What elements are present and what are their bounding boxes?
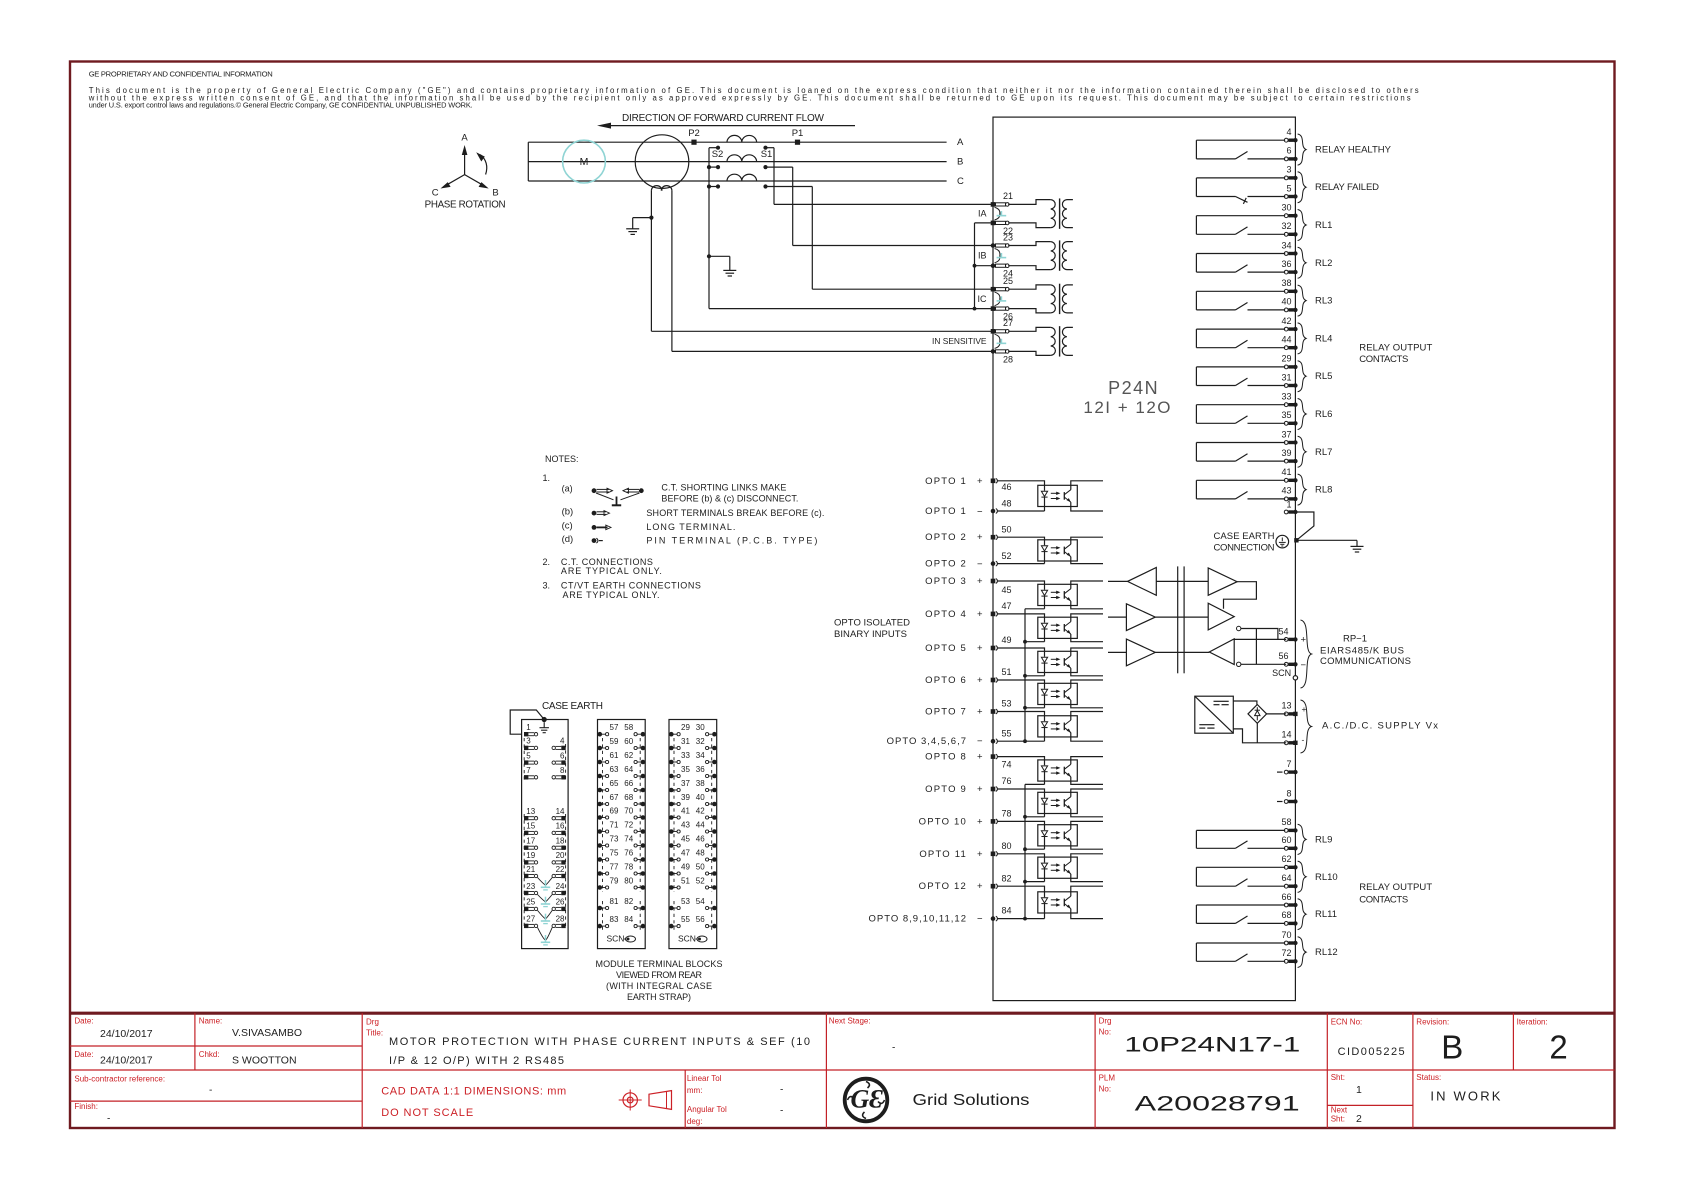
relay contact RL2 xyxy=(1196,254,1285,273)
svg-text:80: 80 xyxy=(1002,841,1012,851)
label S2 xyxy=(712,149,724,160)
terminal P2 xyxy=(688,128,700,145)
svg-text:19: 19 xyxy=(526,851,535,860)
wire cross link xyxy=(1255,629,1257,665)
terminal 41 xyxy=(1281,467,1297,482)
terminal 31 xyxy=(1281,372,1297,387)
svg-text:46: 46 xyxy=(696,834,705,843)
svg-text:25: 25 xyxy=(1003,276,1013,286)
svg-text:49: 49 xyxy=(1002,635,1012,645)
svg-text:RL3: RL3 xyxy=(1315,296,1332,307)
label note 1 xyxy=(543,473,551,483)
svg-text:31: 31 xyxy=(1281,372,1291,382)
label RL2 xyxy=(1315,258,1332,269)
svg-text:OPTO ISOLATED: OPTO ISOLATED xyxy=(834,618,910,629)
svg-text:37: 37 xyxy=(1281,429,1291,439)
block2 terminals 83/84 xyxy=(598,915,646,928)
svg-text:(b): (b) xyxy=(562,507,574,518)
svg-text:54: 54 xyxy=(1278,626,1288,636)
label AC DC supply xyxy=(1322,721,1438,732)
buffer U6 receiver xyxy=(1209,639,1234,665)
svg-text:A: A xyxy=(957,137,964,148)
svg-text:MODULE TERMINAL BLOCKS: MODULE TERMINAL BLOCKS xyxy=(596,959,723,969)
wire CT earth bus xyxy=(709,148,993,309)
svg-text:A.C./D.C. SUPPLY Vx: A.C./D.C. SUPPLY Vx xyxy=(1322,721,1438,732)
svg-text:deg:: deg: xyxy=(687,1117,703,1126)
transformer IB (23/24) xyxy=(1008,240,1073,270)
svg-text:16: 16 xyxy=(556,822,565,831)
titleblock linear tol xyxy=(687,1074,783,1126)
terminal 29 xyxy=(1281,354,1297,369)
block1 terminals 5/6 xyxy=(524,751,566,764)
label OPTO 8,9,10,11,12 minus xyxy=(868,914,983,925)
svg-text:DO NOT SCALE: DO NOT SCALE xyxy=(381,1107,473,1119)
svg-text:Grid Solutions: Grid Solutions xyxy=(913,1092,1030,1109)
svg-text:26: 26 xyxy=(556,898,565,907)
block1 terminals 19/20 xyxy=(524,851,566,864)
svg-text:under U.S. export control laws: under U.S. export control laws and regul… xyxy=(89,101,473,110)
svg-text:Sht:: Sht: xyxy=(1331,1114,1345,1123)
svg-text:RL4: RL4 xyxy=(1315,333,1332,344)
wire OPTO 6 cathode xyxy=(1025,707,1045,709)
relay contact RL4 xyxy=(1196,329,1285,348)
svg-text:C: C xyxy=(957,176,964,187)
terminal 30 xyxy=(1281,202,1297,217)
wire psu to terminal 14 xyxy=(1233,729,1286,743)
wire phase B xyxy=(528,157,963,168)
svg-text:P24N: P24N xyxy=(1108,378,1159,398)
brace RELAY FAILED xyxy=(1298,172,1307,203)
svg-text:1: 1 xyxy=(1286,499,1291,509)
phase bus vertical link xyxy=(527,142,529,181)
svg-text:CAD DATA 1:1 DIMENSIONS: mm: CAD DATA 1:1 DIMENSIONS: mm xyxy=(381,1085,566,1097)
svg-text:24/10/2017: 24/10/2017 xyxy=(100,1028,153,1040)
svg-text:27: 27 xyxy=(1003,318,1013,328)
terminal 66 xyxy=(1281,892,1297,907)
svg-text:5: 5 xyxy=(1286,183,1291,193)
titleblock finish xyxy=(74,1102,110,1125)
svg-text:Date:: Date: xyxy=(74,1050,93,1059)
svg-text:23: 23 xyxy=(526,882,535,891)
GE logo xyxy=(845,1079,888,1122)
label notes heading xyxy=(545,454,579,464)
block3 SCN terminal xyxy=(678,933,707,943)
relay contact RL10 xyxy=(1196,867,1285,886)
terminal 55 xyxy=(991,728,1012,743)
titleblock drg title xyxy=(366,1018,810,1067)
svg-text:57: 57 xyxy=(610,723,619,732)
svg-text:31: 31 xyxy=(681,737,690,746)
block1 terminals 15/16 xyxy=(524,822,566,835)
terminal 60 xyxy=(1281,835,1297,850)
svg-text:71: 71 xyxy=(610,820,619,829)
svg-text:54: 54 xyxy=(696,897,705,906)
CT winding phase A xyxy=(727,135,757,142)
svg-text:5: 5 xyxy=(526,751,531,760)
svg-text:55: 55 xyxy=(1002,728,1012,738)
terminal 49 xyxy=(991,635,1012,650)
terminal 21 xyxy=(991,191,1013,207)
label note 1d xyxy=(562,534,574,545)
svg-text:74: 74 xyxy=(1002,759,1012,769)
block1 terminals 21/22 xyxy=(524,865,566,878)
label relay output contacts upper xyxy=(1359,342,1432,365)
optocoupler OPTO 5 xyxy=(997,648,1103,676)
label P24N xyxy=(1083,378,1172,417)
label RELAY FAILED xyxy=(1315,182,1379,193)
titleblock ecn no xyxy=(1331,1018,1405,1058)
terminal 50 xyxy=(991,525,1012,540)
svg-text:Sht:: Sht: xyxy=(1331,1073,1345,1082)
wire OPTO 5 cathode xyxy=(1025,675,1045,677)
relay case outline P24N xyxy=(993,117,1295,1001)
titleblock sht xyxy=(1331,1073,1362,1125)
svg-text:56: 56 xyxy=(1278,651,1288,661)
CT shorting link 21-22 xyxy=(995,207,1007,220)
svg-text:28: 28 xyxy=(556,915,565,924)
brace RS485 xyxy=(1301,620,1312,688)
optocoupler OPTO 9 xyxy=(997,789,1103,817)
block3 terminals 43/44 xyxy=(669,820,717,833)
svg-text:Drg: Drg xyxy=(1099,1017,1112,1026)
svg-text:NOTES:: NOTES: xyxy=(545,454,579,464)
svg-text:(d): (d) xyxy=(562,534,574,545)
svg-text:RL6: RL6 xyxy=(1315,409,1332,420)
label RELAY HEALTHY xyxy=(1315,145,1392,156)
svg-text:−: − xyxy=(977,507,983,518)
svg-text:SCN: SCN xyxy=(678,933,696,943)
terminal 14 xyxy=(1281,730,1304,745)
bridge rectifier xyxy=(1248,705,1267,724)
svg-text:1: 1 xyxy=(526,723,531,732)
wire opto group A common bus xyxy=(997,609,1027,743)
power supply unit xyxy=(1195,696,1234,733)
svg-text:38: 38 xyxy=(696,779,705,788)
titleblock next stage xyxy=(829,1017,896,1054)
svg-text:OPTO 3,4,5,6,7: OPTO 3,4,5,6,7 xyxy=(887,736,967,747)
svg-text:CONTACTS: CONTACTS xyxy=(1359,895,1408,906)
svg-text:21: 21 xyxy=(526,865,535,874)
svg-text:Next Stage:: Next Stage: xyxy=(829,1017,871,1026)
label OPTO 2 plus xyxy=(925,532,983,543)
terminal 3 xyxy=(1284,165,1297,180)
svg-text:4: 4 xyxy=(560,737,565,746)
wire OPTO 10 cathode xyxy=(1025,848,1045,850)
bubble U5 xyxy=(1237,626,1241,630)
svg-text:Drg: Drg xyxy=(366,1018,379,1027)
label OPTO 8 xyxy=(925,752,983,763)
terminal 52 xyxy=(991,551,1012,566)
terminal 46 xyxy=(991,478,1012,492)
label IC xyxy=(978,294,988,304)
label RP-1 communications xyxy=(1320,634,1411,668)
svg-text:76: 76 xyxy=(624,848,633,857)
relay contact RL9 xyxy=(1196,830,1285,848)
relay contact RL11 xyxy=(1196,905,1285,923)
svg-text:73: 73 xyxy=(610,834,619,843)
svg-text:ECN No:: ECN No: xyxy=(1331,1018,1363,1027)
core balance CT xyxy=(635,135,689,191)
label module terminal blocks xyxy=(596,959,723,1002)
label grid solutions xyxy=(913,1092,1030,1109)
svg-text:SHORT TERMINALS BREAK BEFORE (: SHORT TERMINALS BREAK BEFORE (c). xyxy=(646,508,824,518)
optocoupler OPTO 7 xyxy=(997,712,1103,742)
symbol short terminal b xyxy=(592,511,610,516)
svg-text:+: + xyxy=(977,576,983,587)
svg-text:V.SIVASAMBO: V.SIVASAMBO xyxy=(232,1027,302,1039)
label OPTO 6 xyxy=(925,675,983,686)
terminal 35 xyxy=(1281,410,1297,425)
svg-text:30: 30 xyxy=(696,723,705,732)
svg-text:32: 32 xyxy=(696,737,705,746)
terminal 33 xyxy=(1281,391,1297,406)
wire psu to bridge top xyxy=(1233,701,1257,705)
svg-text:15: 15 xyxy=(526,822,535,831)
svg-text:58: 58 xyxy=(624,723,633,732)
svg-text:Title:: Title: xyxy=(366,1029,383,1038)
label RL3 xyxy=(1315,296,1332,307)
direction arrow xyxy=(597,123,855,129)
wire rx output stub xyxy=(1108,580,1128,582)
motor M xyxy=(563,140,606,183)
label opto isolated binary inputs xyxy=(834,618,910,641)
titleblock name xyxy=(199,1017,302,1039)
block2 terminals 71/72 xyxy=(598,820,646,833)
terminal 23 xyxy=(991,232,1013,248)
svg-text:RL5: RL5 xyxy=(1315,371,1332,382)
svg-text:23: 23 xyxy=(1003,232,1013,242)
proprietary note paragraph xyxy=(88,86,1419,110)
projection symbol xyxy=(619,1090,672,1111)
buffer U2 tx xyxy=(1126,604,1155,631)
svg-text:+: + xyxy=(977,643,983,654)
terminal 4 xyxy=(1284,127,1297,142)
optocoupler OPTO 12 xyxy=(997,886,1103,918)
svg-text:OPTO 8: OPTO 8 xyxy=(925,752,967,763)
svg-text:+: + xyxy=(977,675,983,686)
block3 terminals 37/38 xyxy=(669,779,717,792)
svg-text:18: 18 xyxy=(556,837,565,846)
svg-text:74: 74 xyxy=(624,834,633,843)
wire OPTO 8 cathode xyxy=(1025,783,1045,785)
terminal 5 xyxy=(1284,183,1297,198)
symbol long terminal c xyxy=(592,525,611,530)
buffer U4 driver xyxy=(1208,568,1237,595)
svg-text:RP−1: RP−1 xyxy=(1343,634,1367,645)
svg-text:−: − xyxy=(977,914,983,925)
svg-text:OPTO 8,9,10,11,12: OPTO 8,9,10,11,12 xyxy=(868,914,967,925)
label note 1b text xyxy=(646,508,824,518)
svg-text:PHASE ROTATION: PHASE ROTATION xyxy=(425,199,506,210)
terminal 56 xyxy=(1278,651,1306,671)
terminal 6 xyxy=(1284,146,1297,161)
svg-text:37: 37 xyxy=(681,779,690,788)
svg-text:7: 7 xyxy=(1286,759,1291,769)
terminal 45 xyxy=(991,579,1012,595)
label IA xyxy=(978,209,987,219)
svg-text:38: 38 xyxy=(1281,278,1291,288)
optocoupler OPTO 1 xyxy=(997,481,1103,511)
svg-text:S WOOTTON: S WOOTTON xyxy=(232,1054,297,1066)
ground CT secondary earth xyxy=(707,254,736,276)
block3 terminals 29/30 xyxy=(669,723,717,736)
svg-text:34: 34 xyxy=(696,751,705,760)
svg-text:75: 75 xyxy=(610,848,619,857)
title block grid xyxy=(70,1013,1615,1128)
CT A secondary S1 stub xyxy=(763,146,774,150)
svg-text:A20028791: A20028791 xyxy=(1135,1092,1300,1116)
CT shorting link 23-24 xyxy=(995,249,1007,263)
label RL9 xyxy=(1315,834,1332,845)
label OPTO 9 xyxy=(925,784,983,795)
svg-text:53: 53 xyxy=(1002,699,1012,709)
svg-text:17: 17 xyxy=(526,837,535,846)
svg-text:78: 78 xyxy=(1002,808,1012,818)
svg-text:OPTO 5: OPTO 5 xyxy=(925,643,967,654)
svg-text:58: 58 xyxy=(1281,817,1291,827)
svg-text:S2: S2 xyxy=(712,149,724,160)
svg-text:84: 84 xyxy=(624,915,633,924)
svg-text:82: 82 xyxy=(624,897,633,906)
svg-text:53: 53 xyxy=(681,897,690,906)
terminal 64 xyxy=(1281,873,1297,888)
block1 dashed edges xyxy=(524,738,565,929)
svg-text:24: 24 xyxy=(556,882,565,891)
svg-text:49: 49 xyxy=(681,862,690,871)
label RL5 xyxy=(1315,371,1332,382)
terminal 47 xyxy=(991,601,1012,616)
block2 terminals 61/62 xyxy=(598,751,646,764)
label S1 xyxy=(761,149,773,160)
svg-text:IB: IB xyxy=(978,250,987,260)
svg-text:2: 2 xyxy=(1549,1029,1567,1066)
terminal 40 xyxy=(1281,297,1297,312)
svg-text:EARTH STRAP): EARTH STRAP) xyxy=(627,992,691,1002)
wire core CT lead 1 xyxy=(650,191,652,332)
label RL4 xyxy=(1315,333,1332,344)
wire OPTO 12 cathode xyxy=(1025,918,1045,920)
terminal 34 xyxy=(1281,240,1297,255)
svg-text:SCN: SCN xyxy=(1272,668,1291,678)
svg-text:RL7: RL7 xyxy=(1315,447,1332,458)
svg-text:S1: S1 xyxy=(761,149,773,160)
svg-text:P2: P2 xyxy=(688,128,700,139)
terminal SCN xyxy=(1272,668,1297,680)
ground core CT earth xyxy=(626,216,653,235)
svg-text:+: + xyxy=(977,476,983,487)
svg-text:47: 47 xyxy=(1002,601,1012,611)
terminal 62 xyxy=(1281,854,1297,869)
terminal 8 xyxy=(1277,788,1298,803)
label OPTO 12 xyxy=(919,881,983,892)
svg-text:+: + xyxy=(977,881,983,892)
svg-text:CASE EARTH: CASE EARTH xyxy=(542,701,603,712)
svg-text:CONNECTION: CONNECTION xyxy=(1214,542,1275,553)
svg-text:42: 42 xyxy=(696,806,705,815)
svg-text:60: 60 xyxy=(1281,835,1291,845)
svg-text:VIEWED FROM REAR: VIEWED FROM REAR xyxy=(616,970,703,980)
label direction of forward current flow xyxy=(622,113,825,124)
svg-text:64: 64 xyxy=(624,765,633,774)
block3 terminals 33/34 xyxy=(669,751,717,764)
label RL8 xyxy=(1315,485,1332,496)
svg-text:BINARY INPUTS: BINARY INPUTS xyxy=(834,629,907,640)
svg-text:28: 28 xyxy=(1003,354,1013,364)
terminal 27 xyxy=(991,318,1013,334)
svg-text:25: 25 xyxy=(526,898,535,907)
block3 terminals 35/36 xyxy=(669,765,717,778)
svg-text:OPTO 9: OPTO 9 xyxy=(925,784,967,795)
block1 earth link 1 xyxy=(538,878,553,890)
svg-text:Chkd:: Chkd: xyxy=(199,1050,220,1059)
block2 dashed edges xyxy=(603,738,641,930)
svg-text:Name:: Name: xyxy=(199,1017,223,1026)
svg-text:21: 21 xyxy=(1003,191,1013,201)
svg-text:ARE TYPICAL ONLY.: ARE TYPICAL ONLY. xyxy=(561,566,662,576)
label OPTO 7 xyxy=(925,707,983,718)
terminal 37 xyxy=(1281,429,1297,444)
terminal 76 xyxy=(991,776,1012,791)
svg-text:6: 6 xyxy=(560,751,565,760)
terminal 78 xyxy=(991,808,1012,823)
svg-text:+: + xyxy=(977,609,983,620)
svg-text:33: 33 xyxy=(681,751,690,760)
label IN SENSITIVE xyxy=(932,336,987,346)
label RL6 xyxy=(1315,409,1332,420)
svg-text:OPTO 7: OPTO 7 xyxy=(925,707,967,718)
svg-text:SCN: SCN xyxy=(607,933,625,943)
relay contact RL5 xyxy=(1196,367,1285,386)
wire terminal 1 to case earth xyxy=(1294,512,1314,543)
svg-text:44: 44 xyxy=(696,820,705,829)
block1 terminals 27/28 xyxy=(524,915,566,928)
relay contact RL8 xyxy=(1196,480,1285,499)
svg-text:(a): (a) xyxy=(562,483,573,493)
block2 terminals 73/74 xyxy=(598,834,646,847)
svg-text:Linear Tol: Linear Tol xyxy=(687,1074,722,1083)
terminal 72 xyxy=(1281,948,1297,963)
svg-text:mm:: mm: xyxy=(687,1086,703,1095)
label note 3 xyxy=(543,580,701,600)
svg-text:IC: IC xyxy=(978,294,988,304)
proprietary note heading xyxy=(89,70,273,79)
relay contact RL6 xyxy=(1196,405,1285,424)
svg-text:7: 7 xyxy=(526,766,531,775)
label OPTO 4 xyxy=(925,609,983,620)
svg-text:69: 69 xyxy=(610,806,619,815)
svg-text:OPTO 12: OPTO 12 xyxy=(919,881,967,892)
block1 terminals 13/14 xyxy=(524,807,566,820)
svg-text:B: B xyxy=(957,157,963,168)
svg-text:40: 40 xyxy=(1281,297,1291,307)
svg-text:+: + xyxy=(977,849,983,860)
terminal block 3 outline xyxy=(669,720,717,949)
wire case earth to ground xyxy=(1296,540,1363,552)
svg-text:51: 51 xyxy=(1002,667,1012,677)
optocoupler OPTO 11 xyxy=(997,854,1103,882)
relay contact RL7 xyxy=(1196,443,1285,462)
block2 terminals 59/60 xyxy=(598,737,646,750)
svg-text:1.: 1. xyxy=(543,473,551,483)
wire OPTO 7 cathode xyxy=(1025,740,1045,742)
svg-text:PIN TERMINAL (P.C.B. TYPE): PIN TERMINAL (P.C.B. TYPE) xyxy=(646,535,817,545)
block2 terminals 57/58 xyxy=(598,723,646,736)
block3 dashed edges xyxy=(674,738,712,930)
terminal 13 xyxy=(1281,701,1306,717)
svg-text:Revision:: Revision: xyxy=(1416,1018,1449,1027)
svg-text:40: 40 xyxy=(696,793,705,802)
bubble U6 xyxy=(1237,662,1241,666)
